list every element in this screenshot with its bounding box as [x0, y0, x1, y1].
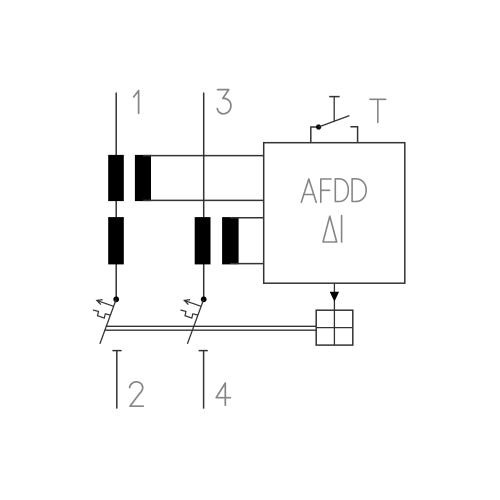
transformer winding: primary on line 1 (lower differential sensor) — [108, 217, 124, 264]
trip actuator box cross bar — [316, 327, 353, 329]
breaker contact 2 release arrow — [184, 300, 201, 307]
node: breaker contact 2 pivot dot — [201, 296, 207, 302]
wire: upper sensor secondary, top lead to AFDD box — [143, 155, 264, 157]
breaker contact 1 blade — [100, 299, 116, 344]
wire: line-3 supply conductor — [203, 93, 205, 300]
node: breaker contact 1 pivot dot — [113, 296, 119, 302]
transformer winding: primary on line 1 (upper sensor) — [108, 155, 124, 201]
wire: line-1 supply conductor — [115, 93, 117, 300]
terminal 4 top tick — [199, 350, 208, 352]
transformer winding: secondary of upper sensor — [135, 155, 151, 201]
wire: trip signal line from AFDD box to actuator — [333, 283, 335, 345]
wire: lower sensor secondary, top lead to AFDD box — [230, 217, 264, 219]
terminal label 2 — [130, 382, 144, 406]
mechanical linkage: upper bar — [106, 325, 316, 327]
AFDD electronics module box U1 — [264, 143, 405, 284]
label T (test button) — [370, 99, 386, 122]
trip signal arrowhead — [330, 292, 339, 302]
breaker contact 1 trip-latch zigzag — [93, 310, 110, 318]
test push-button cap bar — [329, 96, 339, 98]
wire: test-switch left stub from AFDD box top — [311, 127, 317, 143]
breaker contact 2 blade — [187, 299, 203, 344]
wire: lower sensor secondary, bottom lead to AFDD box — [230, 263, 264, 265]
transformer winding: primary on line 3 (lower differential sensor) — [195, 217, 211, 264]
terminal 2 top tick — [112, 350, 121, 352]
node: test-switch pivot dot — [316, 124, 321, 129]
transformer winding: secondary of lower differential sensor — [222, 217, 239, 264]
wire: upper sensor secondary, bottom lead to AFDD box — [143, 199, 264, 201]
breaker contact 1 release arrow — [97, 300, 114, 307]
terminal label 3 — [217, 90, 231, 114]
breaker contact 2 trip-latch zigzag — [181, 310, 198, 318]
terminal label 1 — [134, 91, 139, 114]
test push-button actuator shaft — [333, 97, 335, 122]
wire: terminal 4 load conductor — [203, 351, 205, 409]
label AFDD — [301, 179, 366, 203]
terminal label 4 — [216, 383, 230, 405]
wire: test-switch right stub from AFDD box top — [350, 127, 357, 143]
test switch blade — [319, 116, 350, 127]
trip actuator box (latch mechanism) — [316, 310, 353, 345]
wire: terminal 2 load conductor — [116, 351, 118, 409]
label delta-I — [323, 216, 342, 242]
mechanical linkage: lower bar — [104, 329, 316, 331]
